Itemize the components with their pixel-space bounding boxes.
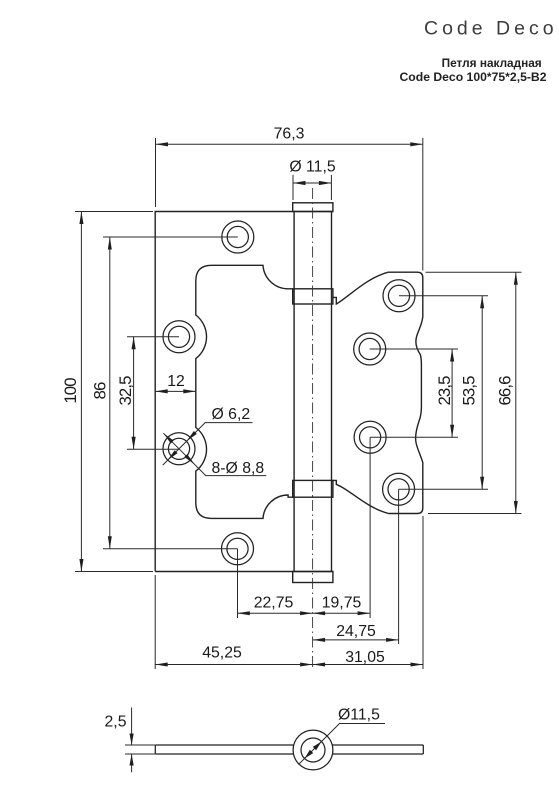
barrel centerline xyxy=(312,188,314,670)
svg-text:2,5: 2,5 xyxy=(105,714,127,731)
hole top-left xyxy=(222,221,254,253)
right leaf outline xyxy=(333,272,423,513)
svg-text:86: 86 xyxy=(91,382,110,399)
dim 45,25 xyxy=(155,575,312,669)
svg-text:Ø 6,2: Ø 6,2 xyxy=(212,406,251,423)
dim 32,5 xyxy=(127,337,179,450)
svg-text:19,75: 19,75 xyxy=(322,594,362,611)
svg-text:12: 12 xyxy=(167,373,185,390)
hole bottom-left xyxy=(222,533,254,565)
svg-text:24,75: 24,75 xyxy=(336,623,376,640)
dim 31,05 xyxy=(313,516,423,669)
side view plate xyxy=(155,745,423,754)
side view barrel circle xyxy=(293,730,333,770)
dim diameter 11,5 side xyxy=(299,724,386,765)
hole mid-right lower xyxy=(354,421,386,453)
svg-text:Code Deco 100*75*2,5-B2: Code Deco 100*75*2,5-B2 xyxy=(400,70,547,84)
hole mid-left upper xyxy=(163,321,195,353)
hole bottom-right xyxy=(383,473,415,505)
left leaf inner cutout xyxy=(196,265,293,518)
dim 2,5 xyxy=(125,708,155,773)
svg-text:Code Deco: Code Deco xyxy=(424,18,558,40)
dim 100 xyxy=(75,212,153,572)
left leaf outline xyxy=(155,212,333,572)
svg-text:Петля накладная: Петля накладная xyxy=(442,56,542,70)
svg-text:8-Ø 8,8: 8-Ø 8,8 xyxy=(212,460,265,477)
barrel body xyxy=(294,212,331,572)
svg-text:100: 100 xyxy=(61,378,80,404)
hole top-right xyxy=(383,280,415,312)
hole mid-left lower (crossed) xyxy=(163,433,195,465)
dim 19,75 xyxy=(313,437,371,618)
dim diameter 11,5 top xyxy=(293,175,331,200)
dim 86 xyxy=(103,237,238,549)
dim 22,75 xyxy=(237,549,312,618)
svg-text:45,25: 45,25 xyxy=(202,645,242,662)
barrel knuckle joint lower xyxy=(293,480,333,497)
svg-text:Ø11,5: Ø11,5 xyxy=(338,706,380,723)
dim 24,75 xyxy=(313,489,399,644)
dim 23,5 xyxy=(370,349,458,437)
dim 53,5 xyxy=(399,296,488,490)
svg-text:53,5: 53,5 xyxy=(460,376,479,406)
svg-text:66,6: 66,6 xyxy=(496,376,515,406)
barrel top cap xyxy=(293,203,333,212)
svg-text:22,75: 22,75 xyxy=(254,594,294,611)
svg-text:23,5: 23,5 xyxy=(435,376,454,406)
dim 76,3 xyxy=(156,138,423,271)
svg-text:76,3: 76,3 xyxy=(274,125,305,142)
barrel bottom cap xyxy=(293,572,333,583)
svg-text:Ø 11,5: Ø 11,5 xyxy=(289,159,335,176)
dim 12 xyxy=(155,390,196,392)
svg-text:31,05: 31,05 xyxy=(345,649,385,666)
svg-text:32,5: 32,5 xyxy=(116,376,135,406)
hole mid-right upper xyxy=(354,333,386,365)
barrel knuckle joint upper xyxy=(293,289,333,304)
callout leader 8-Ø 8,8 line xyxy=(163,433,266,475)
callout leader Ø 6,2 line xyxy=(163,423,253,466)
dim 66,6 xyxy=(426,272,522,513)
